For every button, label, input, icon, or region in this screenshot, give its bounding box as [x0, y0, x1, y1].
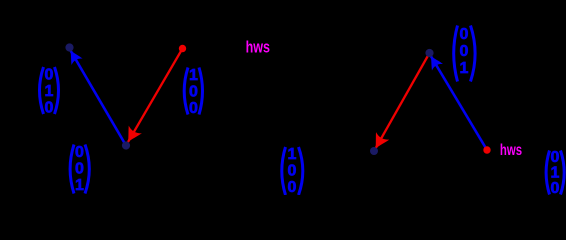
svg-text:0: 0: [189, 100, 198, 117]
vector V2 (0,0,1): [70, 144, 89, 194]
svg-text:0: 0: [75, 161, 84, 178]
node P2: [425, 49, 433, 57]
svg-text:0: 0: [460, 43, 469, 60]
vector V5 (0,0,1): [454, 26, 475, 82]
node red dot right: [483, 146, 490, 153]
svg-text:1: 1: [45, 83, 54, 100]
svg-text:0: 0: [288, 163, 297, 180]
vector V1 (0,1,0): [40, 67, 59, 117]
vector V3 (1,0,0): [184, 67, 202, 117]
node P1: [122, 141, 130, 149]
svg-text:0: 0: [551, 180, 560, 195]
node red dot left: [179, 45, 186, 52]
svg-text:1: 1: [288, 146, 297, 163]
svg-text:0: 0: [75, 144, 84, 161]
svg-text:0: 0: [288, 179, 297, 195]
svg-text:1: 1: [75, 177, 84, 194]
svg-text:0: 0: [460, 26, 469, 43]
svg-text:1: 1: [551, 165, 560, 182]
node P3: [370, 147, 378, 155]
wire: red arrow right (P2 to P3): [376, 53, 430, 149]
svg-text:0: 0: [189, 84, 198, 101]
vector V6 (0,1,0): [546, 149, 564, 197]
svg-text:1: 1: [460, 60, 469, 77]
svg-text:0: 0: [551, 149, 560, 166]
wire: blue arrow right (red dot to P2): [431, 56, 487, 150]
wire: blue arrow left (P1 to P0): [71, 51, 127, 146]
svg-text:0: 0: [45, 100, 54, 117]
vector V4 (1,0,0): [282, 146, 303, 196]
svg-text:1: 1: [189, 67, 198, 84]
wire: red arrow left (red dot to P1): [128, 49, 183, 143]
svg-text:hws: hws: [246, 38, 270, 57]
svg-text:hws: hws: [500, 142, 522, 159]
svg-text:0: 0: [45, 67, 54, 84]
node P0: [65, 43, 73, 51]
